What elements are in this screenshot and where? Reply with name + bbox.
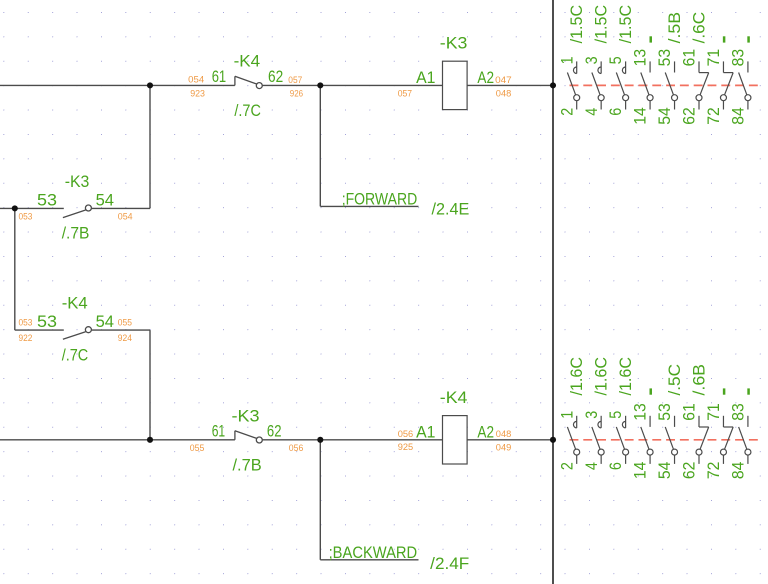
- svg-text:3: 3: [582, 411, 601, 419]
- svg-text:84: 84: [729, 462, 748, 480]
- svg-text:13: 13: [631, 49, 650, 67]
- svg-text:-K4: -K4: [440, 388, 468, 407]
- svg-text:62: 62: [267, 422, 282, 441]
- svg-text:;BACKWARD: ;BACKWARD: [329, 543, 418, 562]
- svg-text:2: 2: [557, 108, 576, 116]
- svg-text:72: 72: [704, 107, 723, 125]
- wire bottom rung left segment: [0, 439, 235, 441]
- svg-text:A1: A1: [416, 422, 435, 441]
- vertical rail / potential bus: [552, 0, 554, 584]
- contact image of -K3 pins 5-6: [606, 5, 635, 116]
- svg-text:-K4: -K4: [234, 52, 261, 71]
- svg-text:048: 048: [496, 429, 512, 439]
- svg-text:1: 1: [557, 56, 576, 64]
- svg-text:6: 6: [606, 108, 625, 116]
- svg-text:54: 54: [655, 462, 674, 480]
- svg-text:049: 049: [496, 442, 512, 452]
- svg-text:/.6B: /.6B: [689, 364, 708, 396]
- svg-text:/.7C: /.7C: [62, 346, 88, 365]
- contact image of -K4 pins 53-54: [655, 364, 684, 479]
- contact image of -K4 pins 83-84: [729, 388, 751, 479]
- svg-text:83: 83: [729, 49, 748, 67]
- wire K4 53-54 rung left: [15, 329, 64, 331]
- svg-text:/1.6C: /1.6C: [591, 357, 610, 396]
- svg-text:053: 053: [19, 318, 33, 328]
- svg-text:924: 924: [118, 333, 132, 343]
- svg-text:6: 6: [606, 462, 625, 470]
- node junction bottom rung / branch: [147, 437, 153, 443]
- svg-text:/.6C: /.6C: [689, 12, 708, 44]
- node 053 junction: [12, 205, 18, 211]
- wire vertical from node 053 down to K4 53-54 rung: [14, 208, 16, 330]
- svg-text:62: 62: [680, 462, 699, 480]
- wire K4 53-54 rung right: [92, 329, 150, 331]
- svg-text:61: 61: [212, 422, 226, 441]
- node junction top rung / forward stub: [317, 82, 323, 88]
- svg-text:61: 61: [680, 49, 699, 67]
- svg-text:5: 5: [606, 411, 625, 419]
- svg-text:055: 055: [118, 318, 132, 328]
- svg-text:/.7B: /.7B: [233, 455, 262, 474]
- wire stub to FORWARD reference: [319, 85, 321, 206]
- wire top rung left segment: [0, 84, 235, 86]
- svg-text:/.5B: /.5B: [665, 12, 684, 44]
- svg-text:54: 54: [96, 191, 114, 210]
- svg-text:53: 53: [37, 191, 57, 210]
- node junction bottom rung / rail: [550, 437, 556, 443]
- wire top rung right segment: [467, 84, 553, 86]
- svg-text:14: 14: [631, 462, 650, 480]
- svg-text:71: 71: [704, 403, 723, 421]
- svg-text:-K4: -K4: [62, 294, 88, 313]
- contact image of -K4 pins 13-14: [631, 388, 653, 479]
- contact image of -K3 pins 3-4: [582, 5, 611, 116]
- svg-text:13: 13: [631, 403, 650, 421]
- svg-text:-K3: -K3: [440, 34, 468, 53]
- svg-text:/.5C: /.5C: [665, 364, 684, 396]
- coil -K3: [443, 61, 468, 109]
- wire top rung middle segment: [263, 84, 443, 86]
- svg-text:71: 71: [704, 49, 723, 67]
- contact image of -K4 pins 3-4: [582, 357, 611, 470]
- contact image of -K3 pins 13-14: [631, 36, 653, 124]
- contact image of -K4 pins 61-62: [680, 364, 709, 479]
- wire K3 53-54 rung left: [0, 207, 64, 209]
- wire bottom rung middle segment: [263, 439, 443, 441]
- svg-text:056: 056: [398, 429, 414, 439]
- wire vertical branch to K3 53-54 rung: [149, 85, 151, 208]
- svg-text:/1.5C: /1.5C: [616, 5, 635, 44]
- svg-text:61: 61: [212, 67, 227, 86]
- svg-text:055: 055: [190, 443, 205, 453]
- svg-text:/2.4E: /2.4E: [432, 200, 470, 219]
- svg-text:5: 5: [606, 56, 625, 64]
- svg-text:056: 056: [289, 443, 304, 453]
- svg-text:-K3: -K3: [232, 406, 260, 425]
- svg-text:14: 14: [631, 107, 650, 125]
- contact -K4 53-54 NO: [63, 332, 86, 340]
- svg-text:053: 053: [19, 212, 33, 222]
- contact -K3 53-54 NO: [63, 210, 86, 218]
- svg-text:048: 048: [496, 88, 512, 98]
- mechanical linkage dashed line of -K4: [570, 439, 761, 441]
- contact image of -K3 pins 83-84: [729, 36, 751, 124]
- svg-text:057: 057: [288, 75, 302, 85]
- svg-text:;FORWARD: ;FORWARD: [342, 189, 418, 208]
- svg-text:/.7C: /.7C: [234, 101, 261, 120]
- svg-text:923: 923: [190, 88, 205, 98]
- contact image of -K4 pins 71-72: [704, 388, 733, 479]
- svg-text:83: 83: [729, 403, 748, 421]
- contact image of -K4 pins 1-2: [557, 357, 586, 470]
- svg-text:61: 61: [680, 403, 699, 421]
- node junction top rung / rail: [550, 82, 556, 88]
- contact -K4 61-62 NC: [234, 76, 236, 85]
- svg-text:54: 54: [655, 107, 674, 125]
- contact image of -K3 pins 61-62: [680, 12, 709, 125]
- node junction bottom rung / backward stub: [317, 437, 323, 443]
- svg-text:925: 925: [398, 442, 414, 452]
- svg-text:62: 62: [268, 67, 283, 86]
- coil -K4: [443, 416, 468, 464]
- svg-text:4: 4: [582, 108, 601, 116]
- svg-text:53: 53: [655, 49, 674, 67]
- svg-text:/.7B: /.7B: [62, 224, 90, 243]
- svg-text:84: 84: [729, 107, 748, 125]
- svg-text:2: 2: [557, 462, 576, 470]
- wire K3 53-54 rung right: [92, 207, 150, 209]
- svg-text:A2: A2: [477, 422, 494, 441]
- svg-text:3: 3: [582, 56, 601, 64]
- svg-text:1: 1: [557, 411, 576, 419]
- svg-text:62: 62: [680, 107, 699, 125]
- node junction top rung / branch: [147, 82, 153, 88]
- svg-text:/1.6C: /1.6C: [616, 357, 635, 396]
- svg-text:53: 53: [37, 312, 57, 331]
- wire stub to BACKWARD reference: [319, 440, 321, 560]
- contact -K3 61-62 NC: [234, 431, 236, 440]
- svg-text:53: 53: [655, 403, 674, 421]
- svg-text:72: 72: [704, 462, 723, 480]
- svg-text:4: 4: [582, 462, 601, 470]
- svg-text:54: 54: [96, 312, 114, 331]
- contact image of -K3 pins 53-54: [655, 12, 684, 125]
- contact image of -K4 pins 5-6: [606, 357, 635, 470]
- mechanical linkage dashed line of -K3: [570, 84, 761, 86]
- svg-text:-K3: -K3: [65, 172, 90, 191]
- svg-text:A2: A2: [477, 68, 494, 87]
- svg-text:/1.5C: /1.5C: [567, 5, 586, 44]
- contact image of -K3 pins 71-72: [704, 36, 733, 124]
- svg-text:054: 054: [118, 212, 133, 222]
- contact image of -K3 pins 1-2: [557, 5, 586, 116]
- svg-text:926: 926: [290, 88, 303, 98]
- svg-text:/1.5C: /1.5C: [591, 5, 610, 44]
- svg-text:057: 057: [398, 88, 412, 98]
- svg-text:922: 922: [19, 333, 33, 343]
- svg-text:054: 054: [188, 74, 204, 84]
- svg-text:047: 047: [495, 75, 512, 85]
- wire vertical from K4 53-54 rung to bottom rung: [149, 330, 151, 440]
- svg-text:A1: A1: [416, 68, 435, 87]
- svg-text:/1.6C: /1.6C: [567, 357, 586, 396]
- wire bottom rung right segment: [467, 439, 553, 441]
- svg-text:/2.4F: /2.4F: [430, 554, 469, 573]
